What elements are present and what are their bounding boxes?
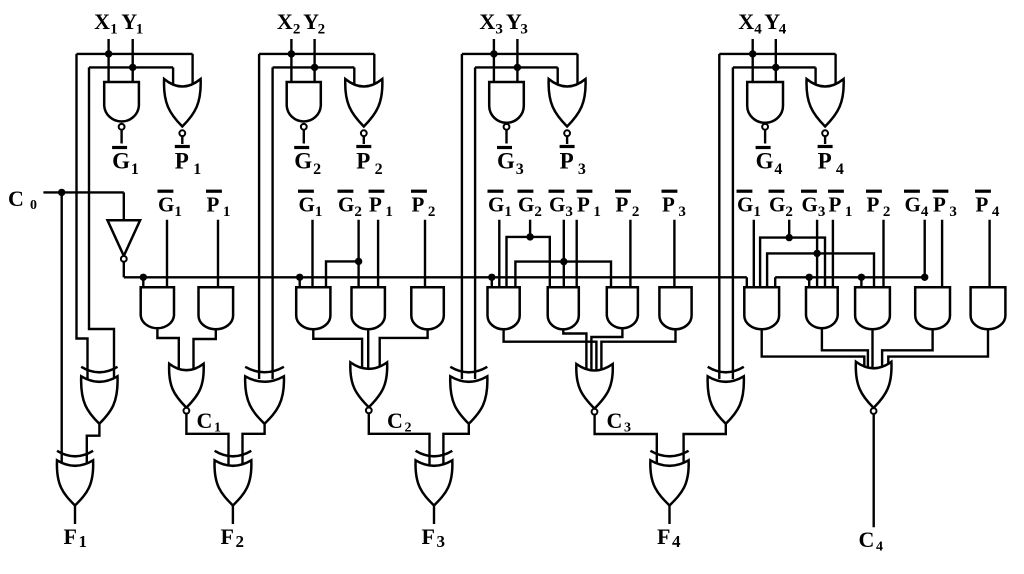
- svg-text:P: P: [207, 193, 220, 217]
- svg-text:P: P: [616, 193, 629, 217]
- svg-text:G: G: [518, 193, 534, 217]
- svg-text:C: C: [387, 408, 403, 433]
- svg-text:2: 2: [534, 204, 542, 220]
- svg-text:3: 3: [437, 532, 446, 551]
- svg-text:P: P: [412, 193, 425, 217]
- svg-text:X: X: [277, 9, 293, 34]
- svg-text:4: 4: [992, 204, 1000, 220]
- svg-text:3: 3: [949, 204, 957, 220]
- svg-text:G: G: [294, 149, 312, 174]
- svg-text:G: G: [488, 193, 504, 217]
- svg-text:G: G: [497, 149, 515, 174]
- svg-text:3: 3: [624, 421, 631, 436]
- svg-text:P: P: [933, 193, 946, 217]
- svg-text:1: 1: [174, 204, 182, 220]
- svg-text:2: 2: [632, 204, 640, 220]
- svg-text:3: 3: [495, 22, 503, 38]
- svg-text:2: 2: [236, 532, 245, 551]
- svg-text:P: P: [577, 193, 590, 217]
- svg-text:4: 4: [876, 540, 883, 555]
- svg-text:G: G: [737, 193, 753, 217]
- svg-text:4: 4: [836, 161, 844, 178]
- svg-text:X: X: [479, 9, 495, 34]
- svg-text:1: 1: [504, 204, 512, 220]
- svg-text:1: 1: [214, 421, 221, 436]
- svg-text:1: 1: [753, 204, 761, 220]
- svg-text:P: P: [818, 149, 832, 174]
- svg-text:P: P: [175, 149, 189, 174]
- svg-text:2: 2: [785, 204, 793, 220]
- svg-text:2: 2: [883, 204, 891, 220]
- svg-text:F: F: [221, 524, 234, 549]
- svg-text:1: 1: [385, 204, 393, 220]
- svg-text:G: G: [802, 193, 818, 217]
- svg-text:1: 1: [110, 22, 118, 38]
- svg-text:1: 1: [79, 532, 88, 551]
- svg-text:3: 3: [516, 161, 524, 178]
- svg-text:C: C: [197, 408, 213, 433]
- svg-text:1: 1: [131, 161, 139, 178]
- svg-text:1: 1: [223, 204, 231, 220]
- svg-text:P: P: [356, 149, 370, 174]
- svg-text:F: F: [657, 524, 670, 549]
- svg-text:1: 1: [193, 161, 201, 178]
- svg-text:1: 1: [845, 204, 853, 220]
- svg-text:P: P: [829, 193, 842, 217]
- svg-text:G: G: [299, 193, 315, 217]
- svg-text:3: 3: [578, 161, 586, 178]
- svg-text:P: P: [662, 193, 675, 217]
- svg-text:X: X: [94, 9, 110, 34]
- svg-text:3: 3: [818, 204, 826, 220]
- svg-text:4: 4: [754, 22, 762, 38]
- svg-text:2: 2: [405, 421, 412, 436]
- svg-text:3: 3: [678, 204, 686, 220]
- svg-text:X: X: [738, 9, 754, 34]
- svg-text:P: P: [560, 149, 574, 174]
- svg-text:2: 2: [354, 204, 362, 220]
- svg-text:2: 2: [318, 22, 326, 38]
- svg-text:3: 3: [565, 204, 573, 220]
- svg-text:2: 2: [428, 204, 436, 220]
- svg-text:4: 4: [779, 22, 787, 38]
- svg-text:0: 0: [30, 198, 37, 213]
- svg-text:G: G: [756, 149, 774, 174]
- svg-text:G: G: [905, 193, 921, 217]
- svg-text:G: G: [158, 193, 174, 217]
- svg-text:2: 2: [293, 22, 301, 38]
- svg-text:G: G: [549, 193, 565, 217]
- svg-text:F: F: [64, 524, 77, 549]
- svg-text:4: 4: [672, 532, 681, 551]
- svg-text:C: C: [8, 186, 24, 211]
- svg-text:3: 3: [520, 22, 528, 38]
- svg-text:P: P: [976, 193, 989, 217]
- svg-text:2: 2: [375, 161, 383, 178]
- svg-text:C: C: [607, 408, 623, 433]
- svg-text:P: P: [369, 193, 382, 217]
- svg-text:1: 1: [315, 204, 323, 220]
- svg-text:2: 2: [313, 161, 321, 178]
- svg-text:P: P: [867, 193, 880, 217]
- svg-text:G: G: [338, 193, 354, 217]
- svg-text:4: 4: [774, 161, 782, 178]
- svg-text:F: F: [422, 524, 435, 549]
- svg-text:1: 1: [593, 204, 601, 220]
- svg-text:G: G: [112, 149, 130, 174]
- svg-text:1: 1: [136, 22, 144, 38]
- svg-text:C: C: [859, 527, 875, 552]
- svg-text:G: G: [769, 193, 785, 217]
- svg-text:4: 4: [921, 204, 929, 220]
